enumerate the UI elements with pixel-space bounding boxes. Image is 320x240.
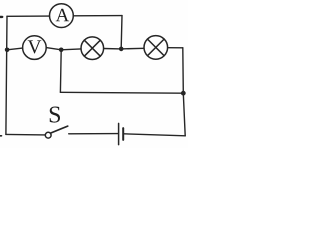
switch label S — [50, 107, 60, 123]
wire: voltmeter to node D2 to lamp L1 — [46, 48, 81, 50]
junction dot D3 — [119, 47, 124, 52]
wire: vertical from top wire down to node D3 — [120, 16, 123, 48]
wire stub at left edge (bottom, cropped) — [0, 135, 2, 137]
ammeter U1 circle — [50, 4, 74, 28]
lamp L2 circle — [144, 36, 168, 60]
wire: lamp L1 to node D3 to lamp L2 — [104, 47, 144, 50]
wire: top horizontal, right segment — [73, 15, 122, 17]
lamp L1 circle — [81, 37, 104, 60]
wire: middle branch from node D2 down — [59, 50, 62, 93]
junction dot D1 on left wire — [5, 48, 10, 53]
junction dot D4 on right wire — [181, 91, 186, 96]
wire: right vertical side — [183, 48, 185, 136]
wire: switch fixed contact to battery — [69, 133, 118, 135]
lamp L1 cross — [84, 40, 100, 56]
lamp L2 cross — [148, 39, 165, 56]
wire stub at left edge (top, cropped) — [0, 16, 2, 18]
battery BT1 long plate — [118, 123, 120, 144]
junction dot D2 — [59, 48, 64, 53]
wire: top horizontal, left segment — [7, 15, 50, 17]
voltmeter V circle — [23, 36, 47, 60]
voltmeter label V — [28, 40, 42, 53]
wire: node D1 to voltmeter — [7, 48, 23, 50]
wire: battery to bottom-right corner — [124, 134, 185, 136]
wire: lamp L2 to top-right corner — [168, 47, 183, 49]
ammeter label A — [56, 9, 69, 22]
wire: left vertical side — [6, 16, 7, 134]
wire: middle horizontal to node D4 — [60, 91, 183, 94]
switch S pivot circle — [45, 132, 51, 138]
wire: bottom from left corner to switch pivot — [6, 133, 45, 136]
switch S lever (open) — [51, 126, 68, 133]
battery BT1 short plate — [122, 128, 124, 140]
